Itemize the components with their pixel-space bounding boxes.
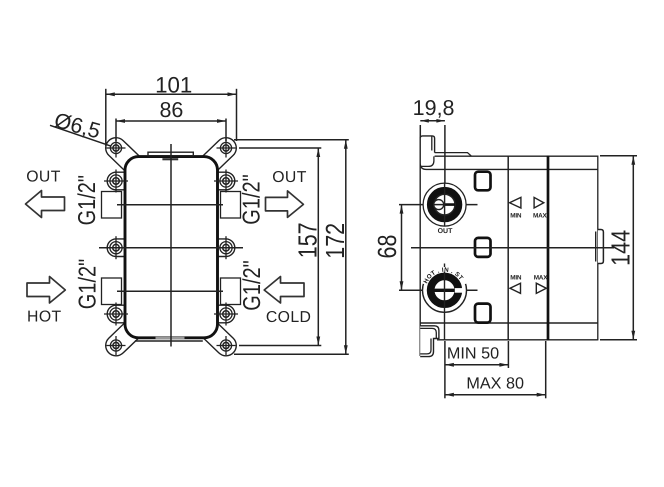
svg-text:144: 144	[606, 230, 635, 266]
bottom flange line	[135, 340, 203, 342]
bottom slot dash	[156, 337, 185, 339]
box top edge	[435, 155, 598, 157]
svg-text:OUT: OUT	[272, 169, 307, 186]
port square top	[475, 172, 491, 191]
flange hole left middle	[104, 236, 128, 259]
svg-text:G1/2": G1/2"	[74, 175, 101, 225]
knob OUT (top)	[423, 183, 466, 227]
ear tab bottom-left	[116, 322, 141, 346]
vertical centerline	[170, 144, 172, 347]
lid top edge	[435, 153, 472, 157]
side flange bump left lower	[107, 305, 126, 323]
arrow HOT	[27, 277, 65, 304]
side flange bump right upper	[216, 172, 235, 190]
svg-text:86: 86	[159, 98, 183, 122]
mounting hole top-right	[217, 139, 236, 158]
port square bottom	[475, 304, 491, 323]
svg-text:157: 157	[293, 222, 322, 258]
ear tab bottom-right	[201, 322, 226, 346]
centerline knob bottom row	[399, 289, 478, 291]
mounting hole bottom-right	[217, 336, 236, 355]
port square middle	[475, 238, 491, 257]
top slot dash	[162, 158, 178, 160]
dimension 101	[106, 89, 237, 146]
svg-text:19,8: 19,8	[413, 96, 455, 120]
flange hole left lower	[104, 303, 128, 326]
port left bottom HOT	[102, 278, 122, 305]
section line mid thin	[507, 156, 509, 340]
svg-text:MAX 80: MAX 80	[466, 375, 524, 393]
mounting hole top-left	[107, 139, 126, 158]
centerline bottom port row	[117, 290, 223, 292]
rim line bottom	[420, 322, 598, 324]
dimension 68	[400, 205, 404, 291]
dimension 172	[234, 140, 349, 354]
svg-text:G1/2": G1/2"	[239, 260, 266, 310]
plate front edge	[419, 137, 421, 356]
svg-text:OUT: OUT	[26, 169, 61, 186]
top tab	[148, 152, 193, 156]
box bottom edge	[437, 339, 598, 341]
dimension MAX 80	[445, 341, 546, 398]
port right bottom COLD	[221, 278, 241, 305]
svg-text:OUT: OUT	[438, 228, 454, 235]
symbol MIN triangle bottom	[510, 283, 521, 293]
right clip inner line	[595, 232, 597, 262]
horizontal centerline middle	[99, 247, 243, 249]
svg-text:MIN 50: MIN 50	[447, 345, 499, 363]
dimension MIN 50	[445, 341, 509, 398]
right clip bracket	[598, 230, 604, 264]
svg-text:172: 172	[321, 223, 350, 259]
arrow OUT right	[266, 191, 304, 218]
port right top OUT	[221, 192, 241, 219]
knob HOT curved label	[424, 269, 464, 284]
symbol MAX triangle top	[534, 197, 544, 208]
side flange bump right middle	[216, 239, 235, 257]
svg-text:G1/2": G1/2"	[75, 259, 102, 309]
symbol MIN triangle top	[510, 197, 521, 208]
arrow COLD	[264, 277, 304, 304]
flange hole left upper	[104, 170, 128, 193]
bottom clip boss	[420, 326, 439, 357]
dimension 144	[600, 156, 637, 340]
flange hole right upper	[214, 170, 238, 193]
bottom clip inner lines	[420, 328, 436, 354]
section line mid thick	[547, 156, 550, 341]
arrow OUT left	[26, 191, 65, 218]
right face	[597, 156, 599, 341]
flange hole right middle	[214, 236, 238, 259]
centerline top port row	[117, 204, 223, 206]
svg-text:101: 101	[155, 73, 192, 98]
svg-text:HOT: HOT	[27, 309, 62, 326]
svg-text:MAX: MAX	[533, 212, 548, 219]
side flange bump left middle	[107, 239, 126, 257]
dimension 19,8	[420, 119, 445, 183]
side flange bump right lower	[216, 305, 235, 323]
top clip inner line	[420, 136, 434, 166]
svg-text:MIN: MIN	[510, 212, 522, 219]
centerline mid side view	[411, 247, 614, 249]
ear tab top-left	[116, 148, 141, 172]
knob HOT/IN (bottom)	[423, 264, 467, 341]
centerline knob top row	[399, 204, 478, 206]
ear tab top-right	[201, 148, 226, 172]
dimension 157	[239, 148, 321, 346]
mounting hole bottom-left	[107, 336, 126, 355]
body rounded box	[125, 157, 218, 338]
side flange bump left upper	[107, 172, 126, 190]
dimension 86	[116, 119, 226, 142]
svg-text:68: 68	[373, 235, 402, 259]
top clip boss	[420, 136, 598, 170]
port left top G1/2	[102, 192, 122, 219]
symbol MAX triangle bottom	[536, 283, 546, 293]
svg-text:COLD: COLD	[266, 309, 312, 326]
callout leader O6,5	[50, 125, 111, 146]
svg-text:G1/2": G1/2"	[239, 174, 266, 224]
svg-text:MIN: MIN	[510, 275, 522, 282]
flange hole right lower	[214, 303, 238, 326]
svg-text:MAX: MAX	[534, 275, 549, 282]
